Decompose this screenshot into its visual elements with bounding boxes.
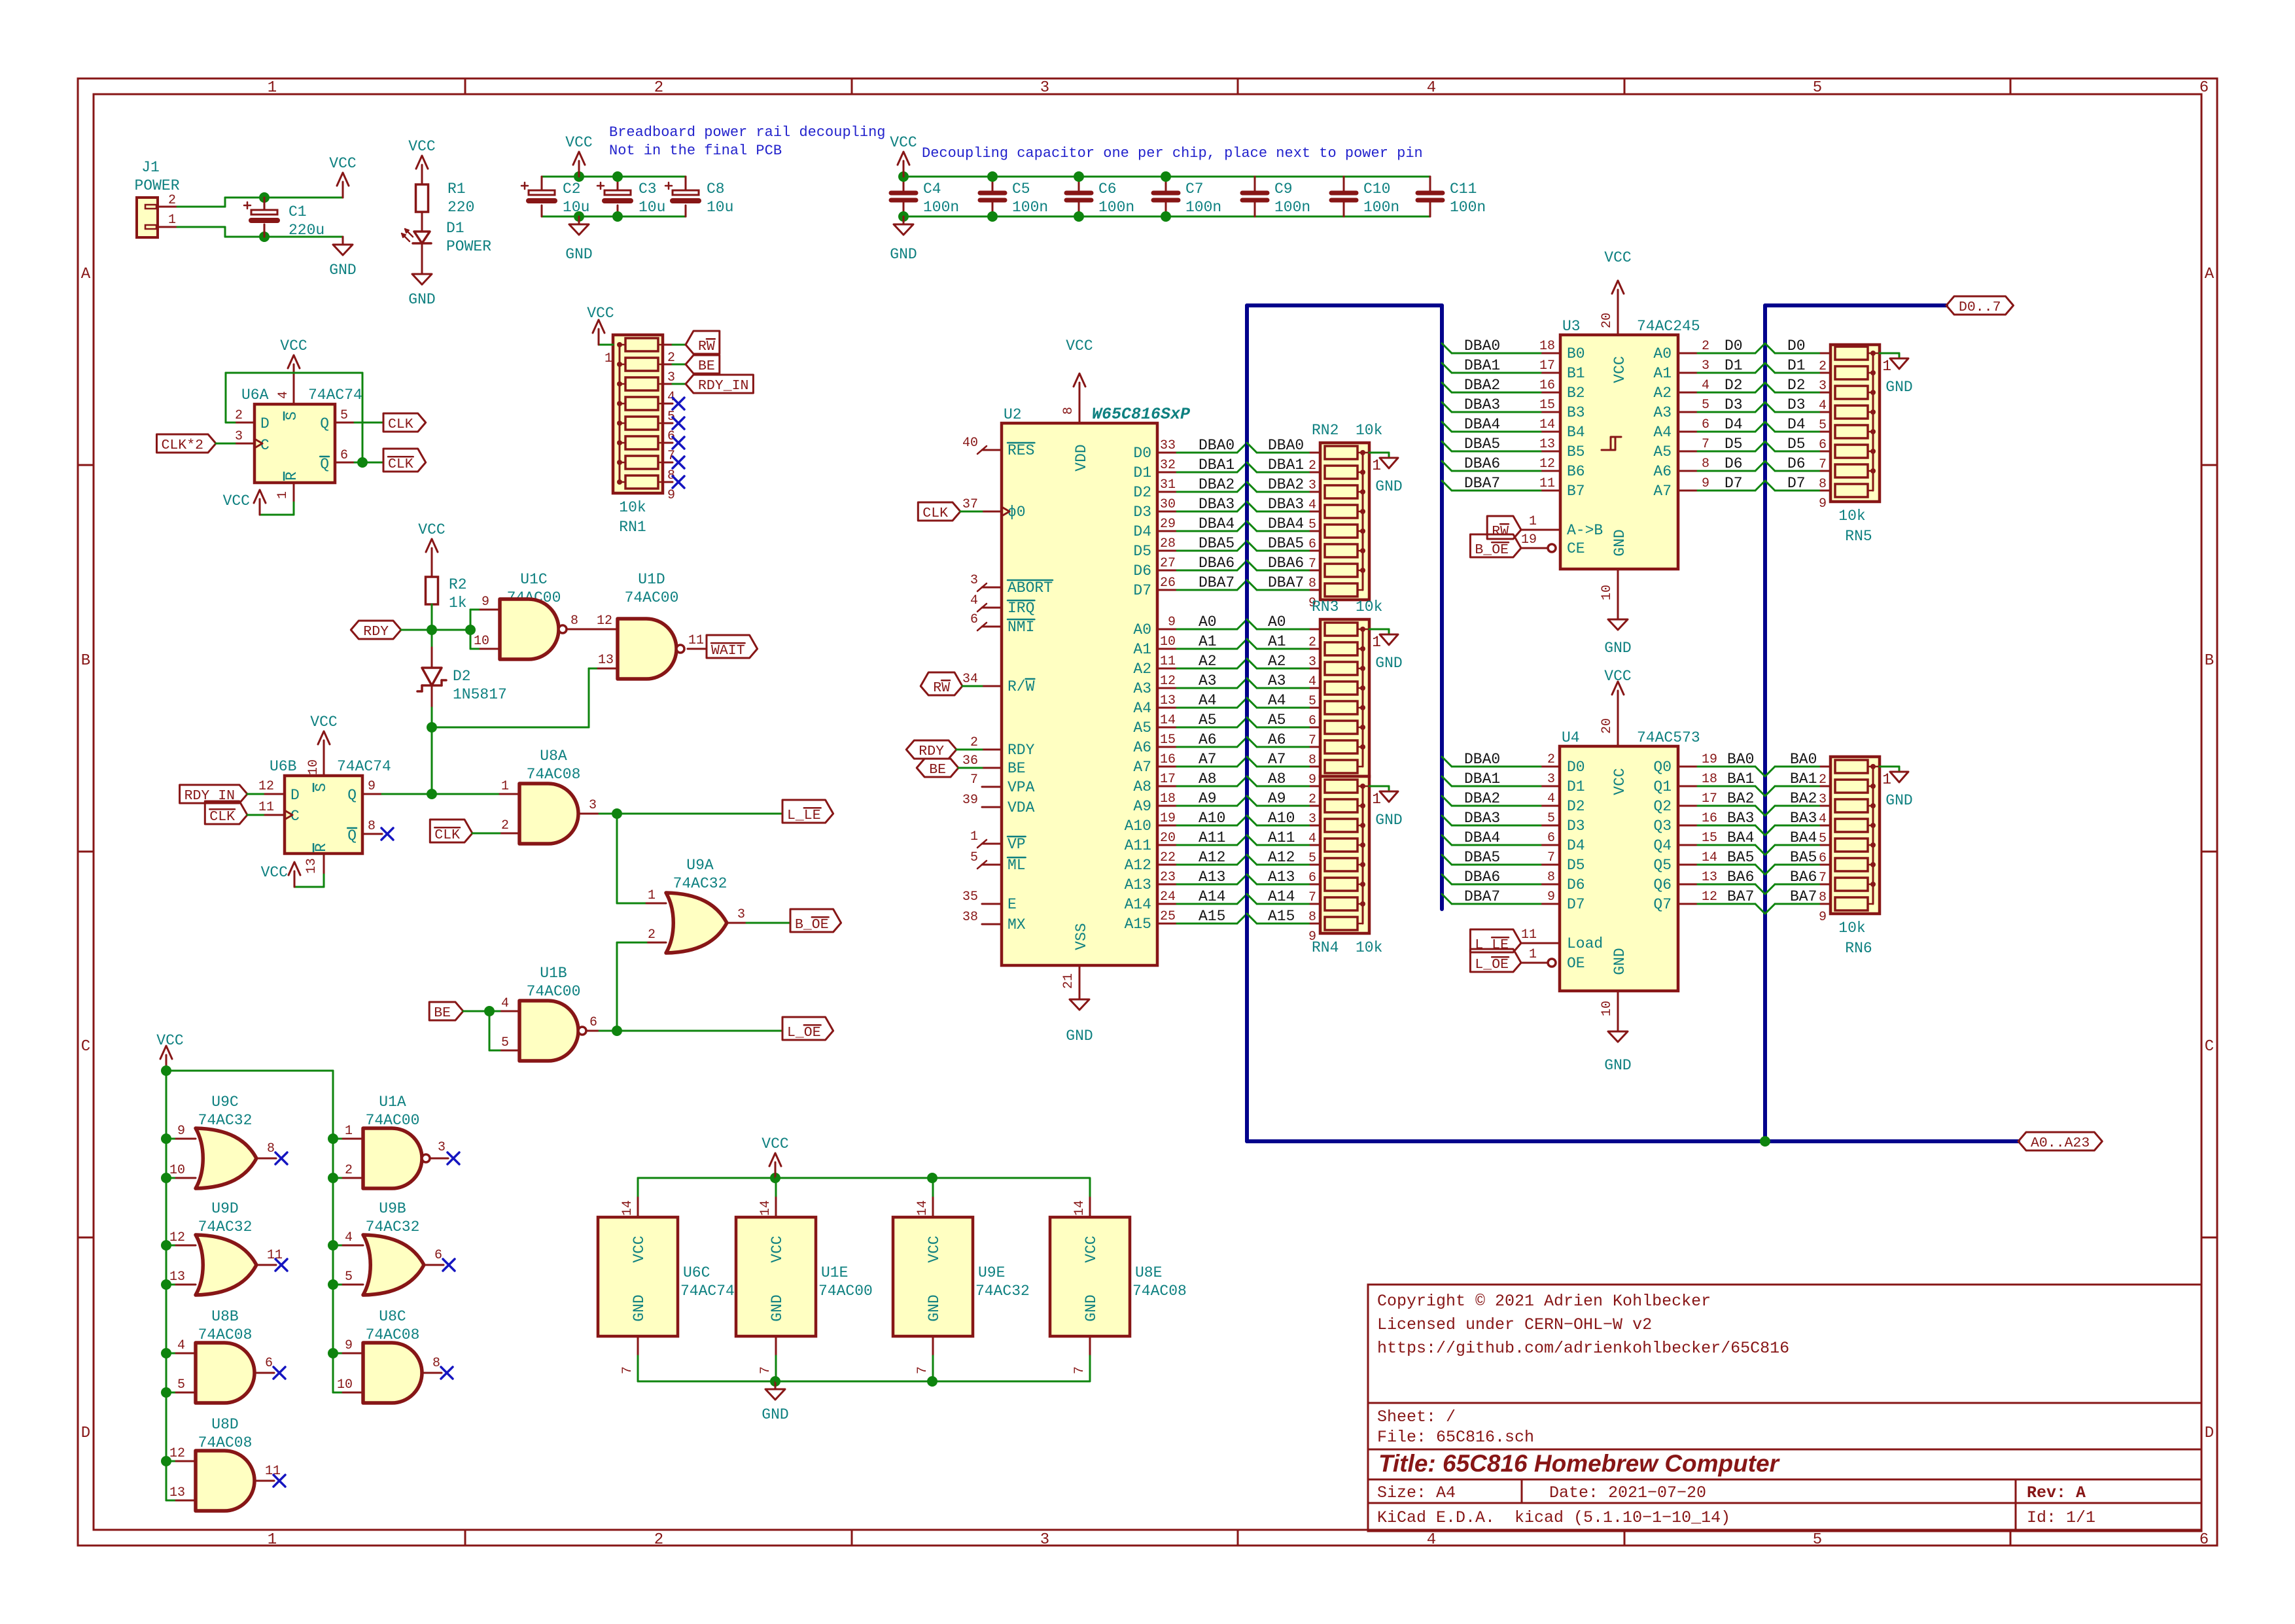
svg-text:A7: A7 (1199, 751, 1217, 768)
svg-text:9: 9 (368, 779, 376, 794)
label D6 at RN5 (1765, 461, 1775, 471)
latch U4 74AC573 (1560, 746, 1678, 991)
svg-text:A2: A2 (1653, 385, 1672, 402)
pin RN5.1 to GND (1873, 353, 1880, 354)
wire DBA2 to RN2 (1247, 482, 1257, 492)
pin U3 B1 (1541, 372, 1560, 374)
bus entry (1237, 737, 1247, 747)
power VCC at U3 (1617, 290, 1619, 305)
pin RN1.4 (663, 383, 673, 385)
svg-text:DBA5: DBA5 (1268, 535, 1304, 552)
svg-text:DBA6: DBA6 (1464, 869, 1500, 886)
pin U3 B7 (1541, 490, 1560, 492)
capacitor C3 10u (617, 177, 619, 192)
svg-text:A1: A1 (1268, 633, 1286, 650)
svg-text:GND: GND (769, 1294, 786, 1321)
svg-text:8: 8 (1819, 477, 1827, 492)
power VCC at decoupling caps (903, 161, 905, 177)
ground GND at U4 (1617, 991, 1619, 1024)
flip-flop U6B 74AC74 (285, 776, 362, 854)
resistor network RN5 10k (1831, 345, 1880, 502)
no-connect X (673, 476, 684, 488)
wire + bus entry (1698, 844, 1755, 846)
svg-text:CLK: CLK (388, 417, 413, 432)
svg-text:GND: GND (1375, 478, 1402, 495)
bus entry (1237, 757, 1247, 767)
svg-text:4: 4 (1308, 831, 1316, 846)
svg-text:OE: OE (1567, 955, 1585, 972)
svg-text:5: 5 (1702, 398, 1709, 413)
svg-text:22: 22 (1160, 850, 1176, 865)
svg-text:https://github.com/adrienkohlb: https://github.com/adrienkohlbecker/65C8… (1377, 1339, 1789, 1358)
svg-text:5: 5 (1819, 831, 1827, 846)
CPU U2 W65C816SxP (1002, 423, 1157, 965)
svg-text:220: 220 (447, 199, 474, 216)
ground GND at breadboard caps (578, 216, 580, 224)
wire DBA3 to RN2 (1247, 502, 1257, 511)
wire DBA6 to RN2 (1247, 561, 1257, 570)
title block (1368, 1285, 2201, 1531)
svg-text:D6: D6 (1567, 876, 1585, 893)
svg-text:Sheet: /: Sheet: / (1377, 1408, 1456, 1426)
svg-text:VCC: VCC (631, 1235, 648, 1262)
svg-text:DBA3: DBA3 (1268, 496, 1304, 513)
svg-text:10k: 10k (1356, 422, 1382, 439)
svg-text:U1B: U1B (540, 965, 567, 982)
bus top horizontal to U3 side (1247, 303, 1442, 307)
wire (1177, 707, 1237, 709)
wire + bus entry (1698, 903, 1755, 905)
svg-text:VCC: VCC (1604, 668, 1631, 685)
label CLKbar to U8A (430, 820, 472, 842)
svg-text:6: 6 (589, 1015, 597, 1030)
pin U2 A7 (1157, 766, 1177, 768)
pin U4.11 Load (1521, 942, 1560, 944)
svg-text:34: 34 (962, 672, 978, 687)
svg-text:GND: GND (890, 246, 917, 263)
wire (1177, 629, 1237, 631)
svg-text:10: 10 (337, 1377, 353, 1392)
svg-text:ϕ0: ϕ0 (1007, 504, 1026, 521)
svg-text:A3: A3 (1268, 672, 1286, 689)
svg-text:A13: A13 (1125, 876, 1151, 893)
svg-text:Date: 2021−07−20: Date: 2021−07−20 (1549, 1483, 1706, 1502)
svg-text:DBA3: DBA3 (1464, 396, 1500, 413)
pin U4 Q7 (1678, 903, 1698, 905)
wire (1177, 746, 1237, 748)
pin RN1.2 (663, 344, 673, 346)
wire GND rail C2-C8 (542, 216, 686, 218)
svg-text:BA7: BA7 (1790, 888, 1817, 905)
svg-text:D3: D3 (1787, 396, 1806, 413)
label L_OE at U4 (1470, 949, 1521, 972)
label RDY to U2 (906, 740, 956, 759)
svg-text:3: 3 (1040, 79, 1049, 97)
svg-text:POWER: POWER (134, 177, 179, 194)
label D4 at RN5 (1765, 422, 1775, 432)
svg-text:D4: D4 (1567, 837, 1585, 854)
wire + bus entry (1452, 805, 1541, 807)
wire (1177, 825, 1237, 827)
wire + bus entry (1698, 470, 1755, 472)
svg-text:POWER: POWER (446, 238, 491, 255)
no-connect X (673, 398, 684, 409)
pin U4 Q0 (1678, 766, 1698, 768)
svg-text:A9: A9 (1133, 798, 1151, 815)
svg-text:A6: A6 (1199, 731, 1217, 748)
svg-text:B0: B0 (1567, 345, 1585, 362)
bus entry (1237, 698, 1247, 708)
capacitor C10 100n (1343, 177, 1345, 193)
svg-text:U8E: U8E (1135, 1264, 1162, 1281)
label D0..7 (1946, 296, 2014, 315)
svg-text:A0: A0 (1653, 345, 1672, 362)
bus entry (1237, 776, 1247, 786)
no-connect X (673, 457, 684, 468)
svg-text:13: 13 (1539, 437, 1555, 452)
svg-text:14: 14 (915, 1200, 930, 1216)
svg-text:Q5: Q5 (1653, 857, 1672, 874)
wire A3 to RN3/RN4 (1247, 678, 1257, 688)
pin U3 A2 (1678, 392, 1698, 394)
wire A4 to RN3/RN4 (1247, 698, 1257, 708)
wire U1B.6 to L_OE and U9A.2 (586, 1030, 599, 1032)
svg-text:Title: 65C816 Homebrew Compute: Title: 65C816 Homebrew Computer (1378, 1450, 1781, 1477)
bus entry (1237, 502, 1247, 511)
svg-text:C: C (260, 437, 270, 454)
pin U2 A10 (1157, 825, 1177, 827)
pin U4 D0 (1541, 766, 1560, 768)
pin U3 A4 (1678, 431, 1698, 433)
wire RDY net (427, 625, 437, 635)
svg-text:IRQ: IRQ (1007, 600, 1034, 617)
svg-text:D6: D6 (1133, 562, 1151, 579)
no-connect X (673, 417, 684, 429)
capacitor C8 10u (685, 177, 687, 192)
svg-text:A4: A4 (1268, 692, 1286, 709)
svg-text:A0: A0 (1133, 621, 1151, 638)
label RW at U3 (1487, 516, 1521, 539)
svg-text:A15: A15 (1268, 908, 1295, 925)
svg-text:DBA1: DBA1 (1268, 457, 1304, 474)
svg-text:GND: GND (565, 246, 592, 263)
svg-text:7: 7 (1547, 850, 1555, 865)
svg-text:4: 4 (276, 391, 291, 399)
svg-text:74AC32: 74AC32 (198, 1218, 253, 1235)
svg-text:DBA7: DBA7 (1464, 475, 1500, 492)
pin U2 A0 (1157, 629, 1177, 631)
svg-text:A2: A2 (1199, 653, 1217, 670)
capacitor C5 100n (992, 177, 994, 193)
svg-text:3: 3 (438, 1140, 446, 1155)
svg-text:74AC245: 74AC245 (1637, 318, 1700, 335)
svg-text:A8: A8 (1268, 770, 1286, 787)
pin U3 B3 (1541, 411, 1560, 413)
svg-text:DBA1: DBA1 (1199, 457, 1235, 474)
svg-text:19: 19 (1521, 532, 1537, 547)
pin U2.37 ϕ0 (982, 511, 1002, 513)
label B_OE (790, 909, 841, 932)
wire A2 to RN3/RN4 (1247, 659, 1257, 668)
power VCC at R2 (431, 548, 433, 564)
wire + bus entry (1452, 786, 1541, 787)
svg-text:1: 1 (345, 1124, 353, 1139)
svg-text:11: 11 (1160, 654, 1176, 669)
svg-text:6: 6 (434, 1248, 442, 1263)
svg-text:3: 3 (1819, 792, 1827, 807)
svg-text:10k: 10k (1356, 598, 1382, 615)
bus vertical at U3/U4 left (1440, 305, 1444, 909)
capacitor C7 100n (1165, 177, 1167, 193)
svg-text:GND: GND (1375, 655, 1402, 672)
svg-text:BA2: BA2 (1727, 790, 1754, 807)
wire + bus entry (1452, 353, 1541, 354)
wire A6 to RN3/RN4 (1247, 737, 1257, 747)
svg-text:VCC: VCC (418, 521, 445, 538)
svg-text:74AC08: 74AC08 (198, 1326, 253, 1343)
wire stub (166, 1500, 176, 1502)
svg-text:C5: C5 (1012, 181, 1030, 198)
label CLK to U2 phi0 (918, 502, 960, 521)
svg-text:100n: 100n (1450, 199, 1486, 216)
wire U1C.8 to U1D.12 (567, 629, 618, 631)
pin U2 D2 (1157, 491, 1177, 493)
svg-text:2: 2 (1308, 635, 1316, 650)
svg-text:A1: A1 (1653, 365, 1672, 382)
wire (1177, 550, 1237, 552)
pin U6A.5 Q (335, 422, 355, 424)
svg-text:Q2: Q2 (1653, 798, 1672, 815)
svg-text:E: E (1007, 896, 1017, 913)
svg-text:RN2: RN2 (1312, 422, 1339, 439)
svg-text:11: 11 (688, 633, 704, 648)
svg-text:6: 6 (1308, 714, 1316, 729)
svg-text:VCC: VCC (769, 1235, 786, 1262)
svg-text:9: 9 (1702, 476, 1709, 491)
pin U2.2 RDY (982, 749, 1002, 751)
pin U2 A8 (1157, 786, 1177, 787)
svg-text:100n: 100n (1098, 199, 1134, 216)
svg-text:7: 7 (1702, 437, 1709, 452)
svg-text:10: 10 (169, 1163, 185, 1178)
svg-text:A4: A4 (1133, 700, 1151, 717)
svg-text:2: 2 (501, 818, 509, 833)
svg-text:9: 9 (1547, 890, 1555, 905)
wire + bus entry (1698, 411, 1755, 413)
svg-text:GND: GND (1066, 1028, 1093, 1045)
pin U2 A6 (1157, 746, 1177, 748)
svg-text:D3: D3 (1133, 504, 1151, 521)
svg-text:4: 4 (970, 593, 978, 608)
svg-text:D7: D7 (1133, 582, 1151, 599)
label RDY_IN in (673, 383, 686, 385)
ground GND at U3 (1617, 569, 1619, 612)
pin U2.35 E (982, 903, 1002, 905)
svg-text:C3: C3 (639, 181, 657, 198)
power VCC at C1 (342, 182, 344, 198)
pin U4 D1 (1541, 786, 1560, 787)
wire + bus entry (1698, 451, 1755, 453)
bus entry (1237, 855, 1247, 865)
wire + bus entry (1698, 825, 1755, 827)
svg-text:C: C (2205, 1038, 2214, 1056)
svg-text:A3: A3 (1653, 404, 1672, 421)
svg-text:A14: A14 (1268, 888, 1295, 905)
bus entry (1237, 561, 1247, 570)
svg-text:A11: A11 (1125, 837, 1151, 854)
svg-text:14: 14 (1539, 417, 1555, 432)
wire + bus entry (1452, 884, 1541, 886)
svg-text:B_OE: B_OE (795, 917, 829, 933)
svg-text:D5: D5 (1725, 436, 1743, 453)
svg-text:7: 7 (1308, 890, 1316, 905)
svg-text:A5: A5 (1653, 443, 1672, 460)
power VCC power units (775, 1162, 777, 1178)
wire (1177, 589, 1237, 591)
svg-text:74AC32: 74AC32 (975, 1283, 1030, 1300)
svg-text:10u: 10u (639, 199, 665, 216)
svg-text:13: 13 (169, 1485, 185, 1500)
svg-text:U6A: U6A (241, 387, 269, 404)
wire + bus entry (1698, 353, 1755, 354)
svg-text:U9B: U9B (379, 1200, 406, 1217)
IC U6C 74AC74 power unit (598, 1217, 678, 1336)
svg-text:D2: D2 (1725, 377, 1743, 394)
wire + bus entry (1452, 451, 1541, 453)
power VCC below U6B pin13 (323, 854, 325, 874)
svg-text:D1: D1 (1787, 357, 1806, 374)
svg-text:A0..A23: A0..A23 (2031, 1135, 2090, 1151)
svg-text:3: 3 (589, 798, 597, 813)
svg-text:5: 5 (1308, 517, 1316, 532)
svg-text:1: 1 (1882, 771, 1891, 788)
svg-text:8: 8 (432, 1356, 440, 1371)
svg-text:B_OE: B_OE (1475, 542, 1509, 558)
pin U6A.6 Qbar (335, 462, 355, 464)
wire DBA5 to RN2 (1247, 541, 1257, 551)
svg-text:D5: D5 (1787, 436, 1806, 453)
pin U4 D5 (1541, 864, 1560, 866)
wire J1.2 to VCC rail (177, 206, 225, 208)
svg-text:10: 10 (474, 634, 489, 649)
wire (1177, 668, 1237, 670)
svg-text:220u: 220u (289, 222, 324, 239)
capacitor C4 100n (903, 177, 905, 193)
pin U3 A6 (1678, 470, 1698, 472)
svg-text:13: 13 (1702, 870, 1717, 885)
pin U2 D6 (1157, 570, 1177, 572)
svg-text:VCC: VCC (1604, 249, 1631, 266)
svg-text:GND: GND (1885, 792, 1912, 809)
svg-text:12: 12 (1160, 674, 1176, 689)
svg-text:Q: Q (320, 415, 329, 432)
svg-text:Size: A4: Size: A4 (1377, 1483, 1456, 1502)
svg-text:D1: D1 (1567, 778, 1585, 795)
svg-text:Copyright © 2021 Adrien Kohlbe: Copyright © 2021 Adrien Kohlbecker (1377, 1292, 1711, 1311)
pin U4.1 OE (1548, 959, 1556, 967)
resistor R2 1k (431, 564, 433, 577)
svg-text:4: 4 (1308, 498, 1316, 513)
svg-text:A2: A2 (1133, 661, 1151, 678)
resistor R1 220 (421, 181, 423, 184)
svg-text:DBA3: DBA3 (1199, 496, 1235, 513)
svg-text:DBA0: DBA0 (1464, 337, 1500, 354)
svg-text:1: 1 (648, 888, 656, 903)
wire + bus entry (1452, 864, 1541, 866)
svg-text:R2: R2 (449, 576, 467, 593)
bus entry (1237, 914, 1247, 924)
svg-text:C2: C2 (563, 181, 581, 198)
svg-text:12: 12 (258, 779, 274, 794)
pin U4 D2 (1541, 805, 1560, 807)
pin RN3.1 to GND (1363, 629, 1369, 631)
svg-text:2: 2 (1308, 792, 1316, 807)
svg-text:D2: D2 (1567, 798, 1585, 815)
pin U4 Q4 (1678, 844, 1698, 846)
svg-text:100n: 100n (1185, 199, 1221, 216)
svg-text:BA4: BA4 (1727, 829, 1754, 846)
svg-text:6: 6 (265, 1356, 273, 1371)
label CLKbar out (357, 457, 368, 468)
svg-text:A0: A0 (1199, 613, 1217, 631)
svg-text:74AC32: 74AC32 (366, 1218, 420, 1235)
wire (1177, 864, 1237, 866)
svg-text:23: 23 (1160, 870, 1176, 885)
wire CLK*2 to U6A.3 (216, 443, 235, 445)
svg-text:ML: ML (1007, 857, 1026, 874)
svg-text:4: 4 (345, 1230, 353, 1245)
svg-text:D2: D2 (453, 668, 471, 685)
svg-text:WAIT: WAIT (711, 643, 745, 659)
wire + bus entry (1452, 766, 1541, 768)
pin U4 D7 (1541, 903, 1560, 905)
svg-text:DBA1: DBA1 (1464, 357, 1500, 374)
pin U2.1 VP (982, 843, 1002, 845)
svg-text:DBA2: DBA2 (1199, 476, 1235, 493)
svg-text:D0: D0 (1567, 759, 1585, 776)
svg-text:R: R (283, 472, 300, 481)
svg-text:DBA6: DBA6 (1464, 455, 1500, 472)
pin U2.5 ML (982, 864, 1002, 866)
svg-text:D2: D2 (1133, 484, 1151, 501)
wire (1177, 452, 1237, 454)
wire (1177, 923, 1237, 925)
power VCC below U6A pin1 (293, 483, 295, 502)
wire A12 to RN3/RN4 (1247, 855, 1257, 865)
svg-text:C9: C9 (1274, 181, 1293, 198)
svg-text:74AC00: 74AC00 (366, 1112, 420, 1129)
svg-text:DBA4: DBA4 (1464, 416, 1500, 433)
svg-text:R/W: R/W (1007, 678, 1035, 695)
wire (1177, 511, 1237, 513)
wire + bus entry (1698, 805, 1755, 807)
svg-text:DBA6: DBA6 (1199, 555, 1235, 572)
svg-text:A8: A8 (1133, 778, 1151, 795)
power VCC at RN1 pin1 (599, 344, 613, 346)
label BA4 at RN6 (1765, 845, 1775, 855)
wire (1177, 472, 1237, 474)
pin U3 B5 (1541, 451, 1560, 453)
pin U3.1 A->B (1521, 529, 1560, 531)
svg-text:1: 1 (1372, 457, 1381, 474)
pin U3 B0 (1541, 353, 1560, 354)
svg-text:13: 13 (169, 1270, 185, 1285)
resistor network RN2 10k (1320, 443, 1369, 600)
svg-text:D0..7: D0..7 (1959, 300, 2001, 315)
svg-text:D4: D4 (1133, 523, 1151, 540)
svg-text:DBA4: DBA4 (1199, 515, 1235, 532)
svg-text:U2: U2 (1004, 406, 1022, 423)
